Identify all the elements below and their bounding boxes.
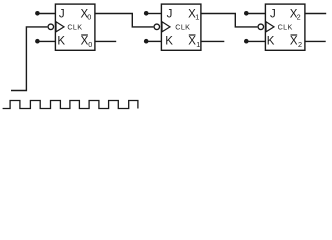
- wire: X0-bar output stub: [95, 40, 116, 42]
- svg-text:2: 2: [297, 12, 301, 21]
- svg-text:K: K: [165, 36, 173, 48]
- U3 output label X2-bar: [290, 35, 302, 49]
- U2 clock edge-trigger triangle: [162, 22, 170, 32]
- wire: X1-bar output stub: [201, 40, 224, 42]
- svg-text:0: 0: [88, 40, 92, 49]
- node: U2 K tie dot: [144, 39, 149, 44]
- svg-text:0: 0: [87, 12, 91, 21]
- U1 output label X0: [81, 8, 92, 21]
- svg-text:CLK: CLK: [67, 23, 82, 32]
- node: U1 J tie dot: [35, 11, 40, 16]
- U3 output label X2: [290, 8, 301, 21]
- U1 clock edge-trigger triangle: [56, 22, 64, 32]
- U3 clock edge-trigger triangle: [266, 22, 274, 32]
- wire: U3 K input: [246, 40, 265, 42]
- svg-text:J: J: [167, 8, 173, 20]
- wire: U3 J input: [246, 13, 265, 15]
- wire: X2-bar output: [305, 40, 326, 42]
- svg-text:1: 1: [196, 40, 200, 49]
- U3 clock inversion bubble: [258, 24, 264, 30]
- node: U3 J tie dot: [244, 11, 249, 16]
- wire: U1 J input: [37, 13, 55, 15]
- svg-text:K: K: [267, 36, 275, 48]
- svg-text:X: X: [290, 36, 298, 48]
- wire: X2 output: [305, 13, 326, 15]
- flip-flop U3 box: [265, 4, 305, 50]
- wire: U2 J input: [146, 13, 161, 15]
- wire: X0 output to U2 CLK: [95, 14, 153, 27]
- svg-text:J: J: [270, 8, 276, 20]
- svg-text:J: J: [59, 8, 65, 20]
- clock waveform: [3, 101, 138, 109]
- U2 output label X1-bar: [188, 35, 200, 49]
- flip-flop U1 box: [55, 4, 95, 50]
- wire: clock feed to U1 CLK: [11, 27, 47, 91]
- U2 clock inversion bubble: [154, 24, 160, 30]
- svg-text:1: 1: [195, 12, 199, 21]
- svg-text:CLK: CLK: [278, 23, 293, 32]
- node: U2 J tie dot: [144, 11, 149, 16]
- U1 output label X0-bar: [81, 35, 93, 49]
- svg-text:CLK: CLK: [175, 23, 190, 32]
- wire: U2 K input: [146, 40, 161, 42]
- flip-flop U2 box: [161, 4, 201, 50]
- svg-text:X: X: [188, 36, 196, 48]
- node: U1 K tie dot: [35, 39, 40, 44]
- wire: X1 output to U3 CLK: [201, 14, 258, 27]
- svg-text:K: K: [57, 36, 65, 48]
- wire: U1 K input: [37, 40, 55, 42]
- node: U3 K tie dot: [244, 39, 249, 44]
- U2 output label X1: [188, 8, 199, 21]
- svg-text:2: 2: [298, 40, 302, 49]
- U1 clock inversion bubble: [48, 24, 54, 30]
